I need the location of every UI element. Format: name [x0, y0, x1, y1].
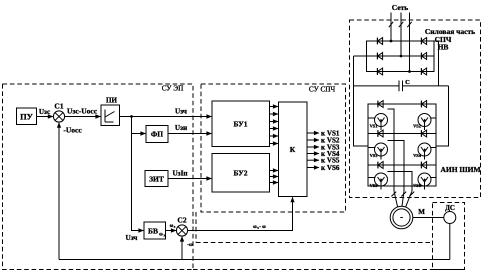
- inverter frame: [368, 104, 436, 186]
- svg-text:НВ: НВ: [438, 43, 449, 52]
- label АИН ШИМ: [440, 165, 480, 174]
- svg-text:VS3: VS3: [370, 153, 379, 158]
- label ωз: [170, 224, 176, 229]
- svg-text:UзIп: UзIп: [172, 170, 187, 178]
- svg-text:- ω: - ω: [259, 225, 266, 230]
- dashed box СУ СПЧ: [201, 84, 346, 212]
- svg-text:VS6: VS6: [413, 183, 422, 188]
- svg-text:Uзч: Uзч: [126, 234, 138, 242]
- label Силовая часть: [425, 27, 475, 36]
- rectifier diodes: [377, 38, 426, 75]
- inverter freewheel diodes: [378, 101, 427, 169]
- block ПУ: [17, 108, 37, 125]
- svg-text:Uзч: Uзч: [175, 108, 187, 116]
- label СПЧ: [435, 35, 452, 44]
- label Uзс: [39, 108, 51, 116]
- wire feedback up to C1: [57, 122, 61, 259]
- label ДС: [445, 204, 455, 212]
- svg-text:ПИ: ПИ: [106, 97, 117, 105]
- label Сеть: [392, 3, 409, 12]
- wire DC bus left: [354, 56, 369, 146]
- label М: [418, 208, 425, 216]
- dashed bottom edge: [193, 269, 465, 271]
- svg-text:Uзс-Uосс: Uзс-Uосс: [67, 107, 98, 116]
- label ПИ: [106, 97, 117, 105]
- svg-text:БУ1: БУ1: [234, 120, 248, 129]
- svg-text:СУ ЭП: СУ ЭП: [162, 85, 184, 93]
- wire branch to ФП: [132, 131, 146, 135]
- dashed enclosure motor section: [196, 212, 433, 243]
- wire Uзс ПУ to C1: [37, 114, 54, 118]
- wire ДС down to feedback: [449, 224, 451, 260]
- wire rectifier to DC plus: [434, 41, 439, 86]
- svg-text:М: М: [418, 208, 425, 216]
- rectifier НВ frame: [367, 41, 435, 72]
- label Uзч: [175, 108, 187, 116]
- svg-text:СУ СПЧ: СУ СПЧ: [309, 86, 336, 94]
- label C1: [54, 102, 63, 111]
- svg-text:Uзс: Uзс: [39, 108, 51, 116]
- block БУ1: [212, 101, 270, 147]
- svg-text:ФП: ФП: [151, 130, 163, 139]
- inverter phase outputs to motor: [388, 109, 415, 196]
- wire БВ to C2: [166, 228, 177, 232]
- svg-text:ПУ: ПУ: [20, 112, 34, 122]
- svg-text:VS4: VS4: [413, 153, 422, 158]
- wire feedback up to C2: [180, 236, 184, 259]
- svg-text:БВ: БВ: [148, 227, 158, 236]
- svg-text:БУ2: БУ2: [234, 169, 248, 178]
- wires БУ1 to К: [270, 104, 279, 145]
- svg-text:C: C: [405, 79, 410, 86]
- label НВ: [438, 43, 449, 52]
- dashed box СУ ЭП: [3, 84, 194, 270]
- block БУ2: [212, 154, 270, 193]
- svg-text:C1: C1: [54, 102, 63, 111]
- svg-text:-Uосс: -Uосс: [63, 126, 82, 135]
- label -ω: [187, 242, 193, 248]
- wire DC link rail: [354, 85, 449, 87]
- svg-text:Uзн: Uзн: [175, 124, 187, 132]
- svg-text:VS1: VS1: [370, 124, 378, 129]
- label Uзс-Uосс: [67, 107, 98, 116]
- wire C1 to ПИ: [65, 114, 101, 118]
- label СУ ЭП: [162, 85, 184, 93]
- svg-text:К: К: [290, 145, 296, 154]
- svg-text:VS5: VS5: [370, 183, 379, 188]
- wire branch down to БВ: [132, 117, 144, 233]
- label C2: [177, 216, 186, 225]
- label СУ СПЧ: [309, 86, 336, 94]
- capacitor C: [399, 79, 410, 91]
- svg-text:ЗИТ: ЗИТ: [149, 175, 164, 184]
- dashed box Силовая часть СПЧ: [350, 20, 481, 198]
- svg-text:C2: C2: [177, 216, 186, 225]
- label ωз-ω: [253, 225, 266, 230]
- label UзIп: [172, 170, 187, 178]
- wires БУ2 to К: [270, 168, 279, 184]
- wires К to VS gates with labels: [307, 130, 340, 173]
- wire UзIп ЗИТ to БУ2: [168, 176, 212, 180]
- block ФП: [146, 126, 168, 143]
- label Uзч near БВ: [126, 234, 138, 242]
- three-phase supply lines with switches: [389, 13, 412, 73]
- summing junction C1: [53, 111, 64, 122]
- block ПИ regulator: [101, 105, 120, 126]
- wire Uзн ФП to БУ1: [168, 131, 212, 135]
- svg-text:VS2: VS2: [413, 124, 421, 129]
- svg-text:Сеть: Сеть: [392, 3, 409, 12]
- wire C2 to К: [188, 197, 295, 231]
- dashed box ДС sensor: [433, 203, 465, 270]
- label Uзн: [175, 124, 187, 132]
- inverter transistors VS1-VS6: [368, 114, 436, 190]
- motor shaft to ДС: [413, 217, 444, 219]
- block К: [279, 102, 308, 197]
- speed sensor ДС: [444, 212, 456, 224]
- wires phases into motor: [394, 191, 412, 207]
- wire DC bus right: [436, 86, 449, 146]
- block БВ: [144, 222, 166, 239]
- label -Uосс: [63, 126, 82, 135]
- summing junction C2: [176, 225, 187, 236]
- wire Uзч ПИ to БУ1: [119, 114, 212, 118]
- block ЗИТ: [145, 171, 168, 187]
- svg-text:к VS6: к VS6: [321, 164, 340, 172]
- svg-text:ДС: ДС: [445, 204, 455, 212]
- svg-text:АИН ШИМ: АИН ШИМ: [440, 165, 480, 174]
- wire speed feedback main: [59, 259, 450, 261]
- svg-text:-ω: -ω: [187, 242, 193, 248]
- motor M: [390, 206, 413, 229]
